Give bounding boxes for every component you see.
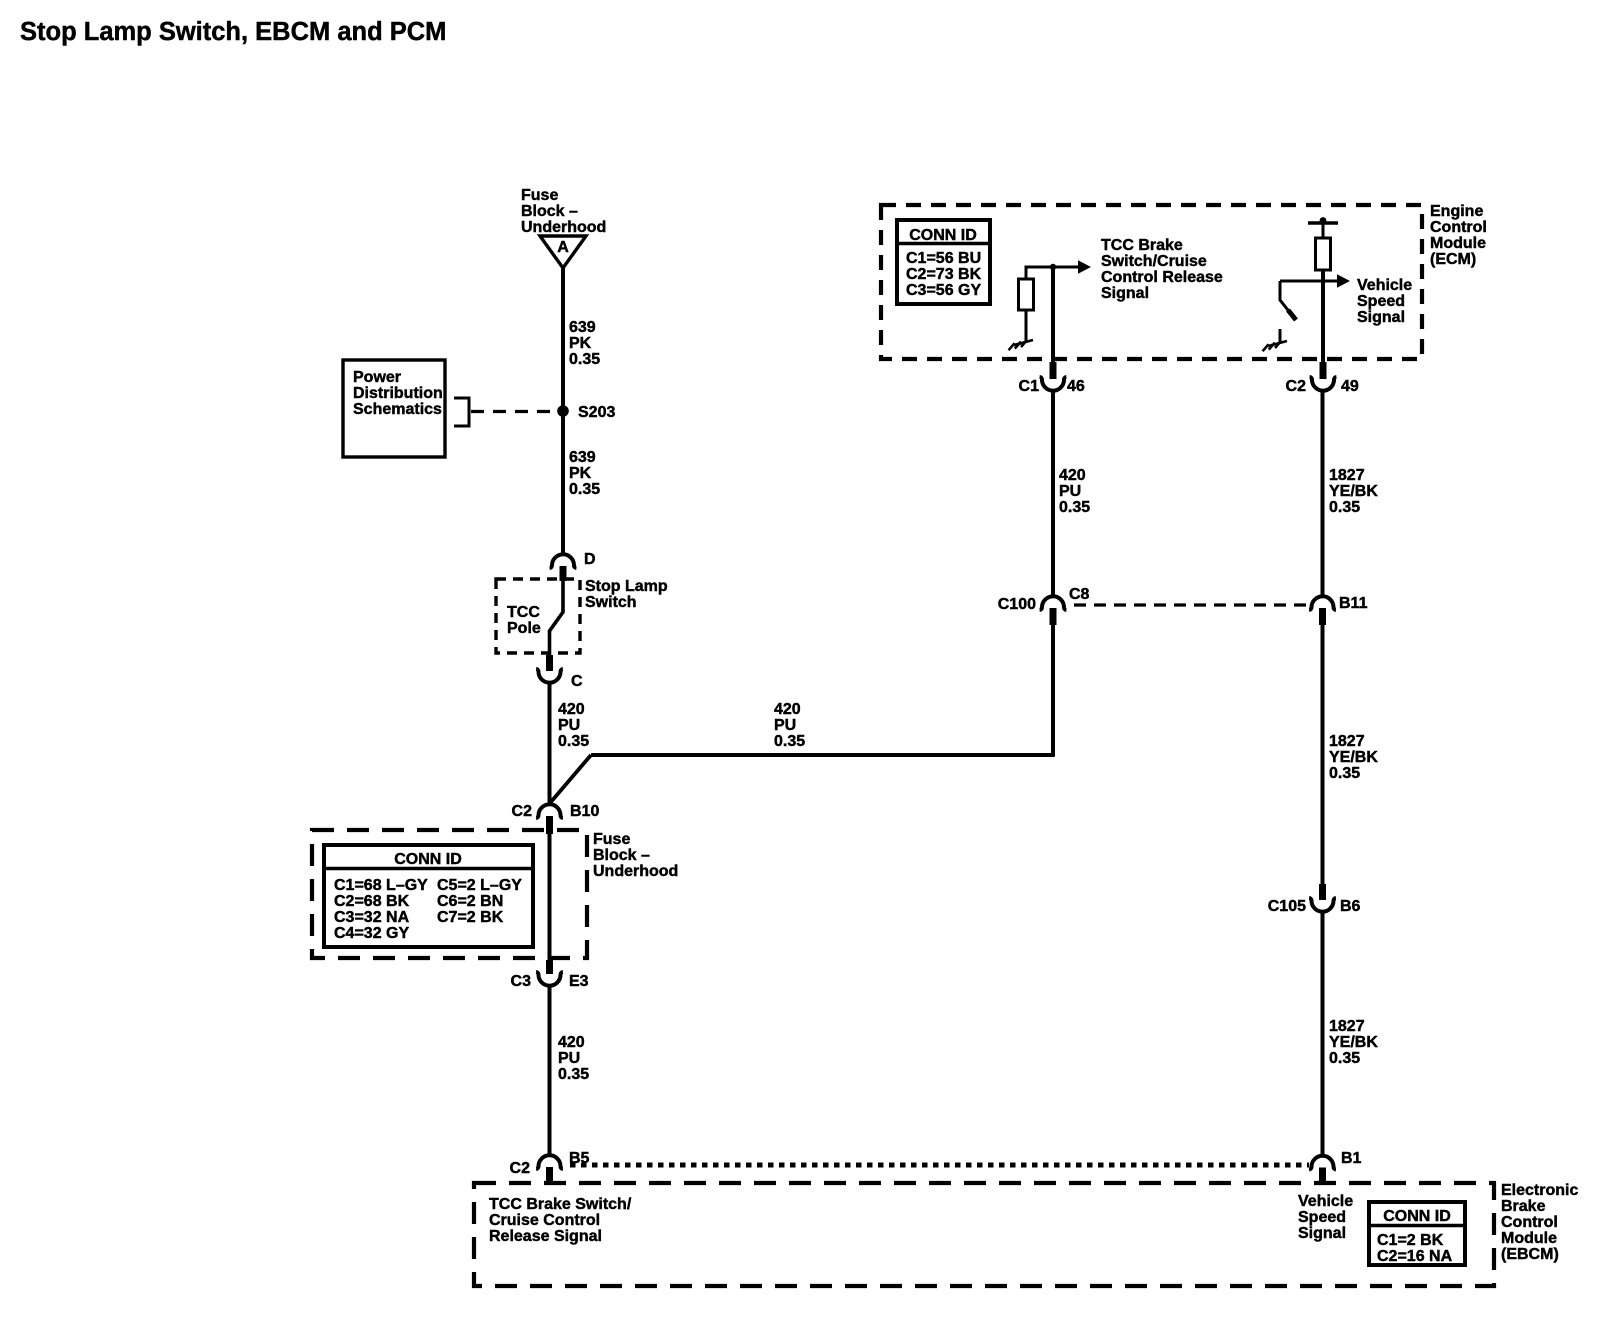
CONN ID table (ECM) bbox=[897, 220, 990, 304]
svg-text:Underhood: Underhood bbox=[521, 219, 606, 236]
svg-text:CONN ID: CONN ID bbox=[909, 227, 977, 244]
svg-text:1827: 1827 bbox=[1329, 1018, 1365, 1035]
svg-text:C2: C2 bbox=[512, 803, 533, 820]
CONN ID table (fuse block) bbox=[324, 845, 533, 947]
svg-text:639: 639 bbox=[569, 319, 596, 336]
svg-text:PU: PU bbox=[1059, 483, 1081, 500]
branch wire vertical to C8 bbox=[1051, 625, 1055, 757]
svg-text:PK: PK bbox=[569, 465, 592, 482]
svg-text:(EBCM): (EBCM) bbox=[1501, 1246, 1559, 1263]
svg-text:Signal: Signal bbox=[1298, 1225, 1346, 1242]
svg-text:Underhood: Underhood bbox=[593, 863, 678, 880]
connector C2 / B10 bbox=[536, 804, 563, 818]
ECM left pull-up resistor bbox=[1025, 267, 1028, 279]
connector C2 / 49 bbox=[1310, 377, 1337, 391]
svg-text:S203: S203 bbox=[578, 404, 615, 421]
dashed link to S203 bbox=[471, 410, 556, 413]
dotted line B5 to B1 bbox=[570, 1163, 1309, 1168]
svg-text:0.35: 0.35 bbox=[1329, 765, 1360, 782]
ECM dashed box bbox=[881, 205, 1422, 359]
svg-text:C2: C2 bbox=[510, 1160, 531, 1177]
dashed line C8 to B11 bbox=[1074, 603, 1311, 606]
connector C1 / 46 bbox=[1040, 377, 1067, 391]
wire 46 to C8 bbox=[1051, 391, 1055, 598]
svg-text:1827: 1827 bbox=[1329, 467, 1365, 484]
svg-text:CONN ID: CONN ID bbox=[1383, 1208, 1451, 1225]
svg-text:B1: B1 bbox=[1341, 1150, 1362, 1167]
svg-text:Pole: Pole bbox=[507, 620, 541, 637]
arrow TCC brake switch signal bbox=[1078, 260, 1091, 274]
svg-text:Control Release: Control Release bbox=[1101, 269, 1223, 286]
svg-text:Stop Lamp Switch, EBCM and PCM: Stop Lamp Switch, EBCM and PCM bbox=[20, 18, 446, 46]
svg-text:0.35: 0.35 bbox=[1329, 499, 1360, 516]
svg-text:C: C bbox=[571, 673, 583, 690]
svg-text:Switch/Cruise: Switch/Cruise bbox=[1101, 253, 1207, 270]
svg-text:D: D bbox=[584, 551, 596, 568]
connector A triangle (fuse block feed) bbox=[540, 236, 586, 268]
svg-text:C6=2 BN: C6=2 BN bbox=[437, 893, 503, 910]
svg-text:420: 420 bbox=[1059, 467, 1086, 484]
svg-text:CONN ID: CONN ID bbox=[394, 851, 462, 868]
connector B11 bbox=[1309, 596, 1336, 610]
svg-text:C1: C1 bbox=[1019, 378, 1040, 395]
svg-text:1827: 1827 bbox=[1329, 733, 1365, 750]
stub above connector C2/49 bbox=[1320, 362, 1327, 379]
svg-text:Brake: Brake bbox=[1501, 1198, 1546, 1215]
svg-text:Fuse: Fuse bbox=[521, 187, 558, 204]
svg-text:PU: PU bbox=[558, 1050, 580, 1067]
svg-text:Vehicle: Vehicle bbox=[1357, 277, 1412, 294]
wire A to S203 bbox=[561, 268, 565, 411]
svg-text:Module: Module bbox=[1501, 1230, 1557, 1247]
svg-text:PU: PU bbox=[774, 717, 796, 734]
svg-text:TCC Brake: TCC Brake bbox=[1101, 237, 1183, 254]
TCC Pole dashed box bbox=[496, 579, 580, 653]
svg-text:C3=32 NA: C3=32 NA bbox=[334, 909, 410, 926]
svg-text:0.35: 0.35 bbox=[558, 1066, 589, 1083]
svg-text:0.35: 0.35 bbox=[1329, 1050, 1360, 1067]
svg-text:Stop Lamp: Stop Lamp bbox=[585, 578, 668, 595]
branch wire diagonal bbox=[550, 755, 591, 803]
svg-text:Release Signal: Release Signal bbox=[489, 1228, 602, 1245]
svg-text:C2=73 BK: C2=73 BK bbox=[906, 266, 982, 283]
wire bar to resistor bbox=[1322, 223, 1325, 238]
stop lamp switch blade (wire jog) bbox=[550, 581, 564, 656]
svg-text:B6: B6 bbox=[1340, 898, 1361, 915]
svg-text:49: 49 bbox=[1341, 378, 1359, 395]
svg-text:C105: C105 bbox=[1268, 898, 1306, 915]
connector C3 / E3 bbox=[546, 960, 553, 974]
svg-text:PU: PU bbox=[558, 717, 580, 734]
svg-text:Fuse: Fuse bbox=[593, 831, 630, 848]
svg-text:420: 420 bbox=[558, 1034, 585, 1051]
svg-text:Speed: Speed bbox=[1298, 1209, 1346, 1226]
svg-text:TCC: TCC bbox=[507, 604, 540, 621]
wire C to B10 bbox=[548, 683, 552, 805]
svg-text:C2=68 BK: C2=68 BK bbox=[334, 893, 410, 910]
wire junction to C1 bbox=[1051, 267, 1055, 362]
connector C105 / B6 bbox=[1319, 884, 1326, 900]
CONN ID table (EBCM) bbox=[1369, 1202, 1465, 1265]
svg-text:Module: Module bbox=[1430, 235, 1486, 252]
svg-text:C3: C3 bbox=[511, 973, 532, 990]
svg-text:C5=2 L–GY: C5=2 L–GY bbox=[437, 877, 522, 894]
svg-text:C1=56 BU: C1=56 BU bbox=[906, 250, 981, 267]
wire B6 to B1 bbox=[1321, 912, 1325, 1157]
svg-text:Block –: Block – bbox=[593, 847, 650, 864]
wire B11 to B6 bbox=[1321, 625, 1325, 884]
ECM left resistor ground bbox=[1025, 310, 1028, 341]
svg-text:YE/BK: YE/BK bbox=[1329, 1034, 1378, 1051]
svg-text:C7=2 BK: C7=2 BK bbox=[437, 909, 504, 926]
svg-text:0.35: 0.35 bbox=[774, 733, 805, 750]
svg-text:Vehicle: Vehicle bbox=[1298, 1193, 1353, 1210]
svg-text:46: 46 bbox=[1067, 378, 1085, 395]
svg-text:TCC Brake Switch/: TCC Brake Switch/ bbox=[489, 1196, 632, 1213]
svg-text:Signal: Signal bbox=[1357, 309, 1405, 326]
stub above connector C bbox=[546, 655, 553, 671]
svg-text:C2: C2 bbox=[1286, 378, 1307, 395]
branch wire horizontal bbox=[591, 753, 1055, 757]
svg-text:C4=32 GY: C4=32 GY bbox=[334, 925, 409, 942]
svg-text:420: 420 bbox=[558, 701, 585, 718]
connector C100 / C8 bbox=[1040, 596, 1067, 610]
svg-text:C2=16 NA: C2=16 NA bbox=[1377, 1248, 1453, 1265]
svg-text:Cruise Control: Cruise Control bbox=[489, 1212, 600, 1229]
svg-text:B10: B10 bbox=[570, 803, 599, 820]
svg-text:Engine: Engine bbox=[1430, 203, 1483, 220]
svg-text:C3=56 GY: C3=56 GY bbox=[906, 282, 981, 299]
splice S203 bbox=[557, 405, 569, 417]
ECM right horizontal wire + arrow bbox=[1280, 280, 1337, 283]
wire 49 to B11 bbox=[1321, 391, 1325, 598]
svg-text:Block –: Block – bbox=[521, 203, 578, 220]
svg-text:Control: Control bbox=[1501, 1214, 1558, 1231]
svg-text:E3: E3 bbox=[569, 973, 589, 990]
svg-text:Control: Control bbox=[1430, 219, 1487, 236]
ECM left horizontal wire + junction bbox=[1025, 266, 1079, 269]
EBCM dashed box bbox=[474, 1183, 1494, 1286]
svg-text:0.35: 0.35 bbox=[1059, 499, 1090, 516]
svg-text:Speed: Speed bbox=[1357, 293, 1405, 310]
wire B10 to E3 bbox=[548, 834, 552, 960]
wire S203 to D bbox=[561, 411, 565, 555]
ECM right ground bbox=[1279, 329, 1282, 342]
svg-text:C100: C100 bbox=[998, 596, 1036, 613]
svg-text:0.35: 0.35 bbox=[558, 733, 589, 750]
svg-text:0.35: 0.35 bbox=[569, 481, 600, 498]
svg-text:Signal: Signal bbox=[1101, 285, 1149, 302]
connector D bbox=[550, 554, 577, 568]
connector C2 / B5 bbox=[536, 1155, 563, 1169]
svg-text:Distribution: Distribution bbox=[353, 385, 443, 402]
svg-text:C8: C8 bbox=[1069, 586, 1090, 603]
svg-text:C1=2 BK: C1=2 BK bbox=[1377, 1232, 1444, 1249]
svg-text:420: 420 bbox=[774, 701, 801, 718]
connector C bbox=[536, 669, 563, 683]
wire resistor to junction and down bbox=[1321, 270, 1325, 362]
svg-text:639: 639 bbox=[569, 449, 596, 466]
svg-text:Electronic: Electronic bbox=[1501, 1182, 1578, 1199]
bracket on power distribution box bbox=[454, 398, 469, 426]
svg-text:(ECM): (ECM) bbox=[1430, 251, 1476, 268]
svg-text:C1=68 L–GY: C1=68 L–GY bbox=[334, 877, 428, 894]
svg-text:PK: PK bbox=[569, 335, 592, 352]
svg-text:Schematics: Schematics bbox=[353, 401, 442, 418]
ECM right top bar with dot bbox=[1308, 221, 1338, 224]
svg-text:Power: Power bbox=[353, 369, 401, 386]
svg-text:0.35: 0.35 bbox=[569, 351, 600, 368]
power distribution schematics box bbox=[343, 360, 445, 457]
svg-text:YE/BK: YE/BK bbox=[1329, 749, 1378, 766]
switch lever to ground (ECM right) bbox=[1280, 281, 1295, 319]
svg-text:B11: B11 bbox=[1339, 595, 1368, 612]
wire E3 to B5 bbox=[548, 986, 552, 1157]
svg-text:YE/BK: YE/BK bbox=[1329, 483, 1378, 500]
fuse block underhood dashed box bbox=[312, 830, 587, 958]
svg-text:A: A bbox=[557, 239, 569, 256]
ECM right resistor bbox=[1316, 238, 1331, 270]
connector B1 bbox=[1309, 1156, 1336, 1170]
svg-text:Switch: Switch bbox=[585, 594, 637, 611]
